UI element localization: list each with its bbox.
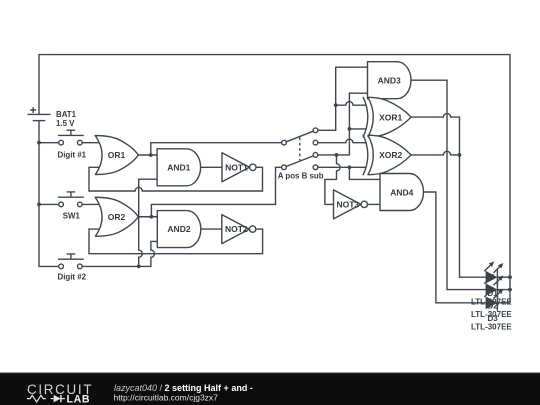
wire branch XOR1 input2 [349,128,366,130]
wire switch A top throw to AND3 input1 and XOR1 input1 [318,67,368,130]
wire AND2 output to NOT2 input [201,228,222,230]
battery BAT1 [28,107,51,121]
wire XOR1 output right and down with hop over AND3 rail [411,113,460,155]
node junction OR2 output [150,215,154,219]
svg-text:BAT1: BAT1 [56,110,77,119]
wire SW1 row [39,203,100,205]
svg-text:OR2: OR2 [108,212,126,222]
svg-text:http://circuitlab.com/cjg3zx7: http://circuitlab.com/cjg3zx7 [114,393,219,403]
wire NOT2 feedback to OR2 lower input [89,229,263,254]
wire switch B top throw up to AND3 input2 [318,93,368,155]
wire OR1 output up to switch A pole1 [151,143,282,155]
LED D1 [484,261,510,285]
wire AND3 output down right rail to LED2 anode [411,80,486,289]
wire left rail battery to Digit#2 [39,121,59,267]
LED D2 [484,274,510,298]
node junction XOR2 output joins XOR1 rail [458,153,462,157]
svg-text:NOT3: NOT3 [336,200,359,210]
footer logo diode [51,398,54,400]
node junction at NOT3 branch [335,153,339,157]
switch SPDT A pole and throws [282,128,318,145]
wire top+right border from battery plus up, across, down right side [39,55,510,303]
svg-text:AND3: AND3 [378,75,401,85]
node junction LED1 cathode to border [508,275,512,279]
not-gate NOT2 [222,215,256,244]
LED D3 [484,287,510,311]
wire OR2 output up and right to switch B pole2 [151,167,281,216]
wire XOR rail down to LED1 anode [460,155,486,277]
node junction left rail at Digit#1 [37,141,41,145]
footer bar [0,373,540,405]
wire Digit#1 row [39,142,100,144]
node junction left rail at SW1 [37,203,41,207]
node junction OR1 output [149,153,153,157]
svg-text:XOR2: XOR2 [379,150,402,160]
svg-text:AND1: AND1 [167,162,190,172]
wire XOR2 output to LED rail with hop over AND3 rail [411,151,460,155]
pushbutton SW1 [58,192,84,207]
and-gate AND2 [157,211,201,248]
and-gate AND4 [380,174,424,211]
node junction Digit#2 line and V1 [137,265,141,269]
wire NOT3 output to AND4 input2 [368,203,381,205]
svg-text:A pos B sub: A pos B sub [278,171,324,180]
wire switch B bottom throw to XOR2 input2 [318,166,367,168]
svg-text:lazycat040 / 2 setting Half +: lazycat040 / 2 setting Half + and - [114,383,253,393]
switch SPDT B pole and throws [282,153,318,170]
wire V1 Digit#2 line up to AND1 lower input with hop over NOT2 feedback [139,179,157,266]
node junction at XOR1 input2 branch [348,127,352,131]
wire branch down to AND4 input1 [349,167,380,179]
svg-text:SW1: SW1 [63,211,81,220]
svg-text:LAB: LAB [67,393,91,405]
svg-text:AND2: AND2 [167,224,190,234]
not-gate NOT3 [334,190,368,219]
svg-text:D3: D3 [488,314,499,323]
svg-text:NOT2: NOT2 [225,224,248,234]
and-gate AND1 [157,149,201,186]
svg-text:LTL-307EE: LTL-307EE [471,322,512,331]
wire NOT1 feedback to OR1 lower input with hop over V1 [89,167,263,191]
node junction at XOR1 input1 branch [334,103,338,107]
svg-text:OR1: OR1 [108,150,126,160]
node junction LED2 cathode to border [508,288,512,292]
wire AND4 output down to LED3 anode [424,192,486,303]
svg-text:XOR1: XOR1 [379,112,402,122]
wire AND1 output to NOT1 input [201,166,222,168]
svg-text:Digit #2: Digit #2 [58,273,87,282]
wire branch XOR1 input1 with hop over Vb [336,102,367,106]
xor-gate XOR1 [363,97,411,138]
svg-text:Digit #1: Digit #1 [58,151,87,160]
svg-text:AND4: AND4 [390,187,413,197]
wire OR1 output to AND1 top input [138,154,157,156]
wire branch down to NOT3 input with hop over throw B bottom row [325,155,340,204]
footer logo resistor zigzag [27,395,46,402]
wire OR2 output to AND2 top input [138,216,157,218]
and-gate AND3 [368,62,411,99]
not-gate NOT1 [222,153,256,182]
or-gate OR1 [95,136,138,175]
pushbutton Digit #2 [58,254,84,269]
wire Digit#2 output to AND2 lower input with hop over NOT2 feedback [82,241,157,266]
xor-gate XOR2 [363,135,411,176]
switch linkage dashed line [299,137,301,160]
svg-text:1.5 V: 1.5 V [56,119,75,128]
label BAT1 value [56,110,77,128]
pushbutton Digit #1 [58,130,84,145]
or-gate OR2 [95,197,138,236]
svg-text:NOT1: NOT1 [225,162,248,172]
node junction at AND4 branch [348,165,352,169]
wire switch A bottom throw to XOR2 input1 with hop over Vb [318,139,367,143]
